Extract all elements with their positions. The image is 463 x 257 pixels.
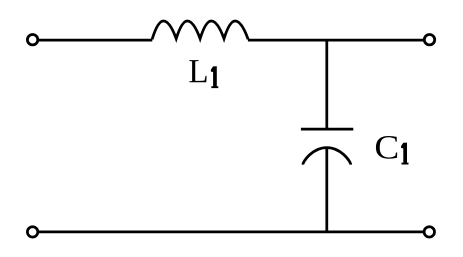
wire capacitor lower lead bbox=[325, 148, 328, 232]
wire top-left segment bbox=[38, 39, 153, 42]
capacitor C1 top plate bbox=[301, 128, 353, 131]
wire capacitor upper lead bbox=[325, 40, 328, 129]
capacitor C1 bottom plate (arc) bbox=[303, 148, 351, 165]
label L1 bbox=[189, 60, 218, 88]
terminal bottom-right bbox=[424, 227, 434, 237]
terminal bottom-left bbox=[27, 227, 37, 237]
wire top-right segment bbox=[248, 39, 424, 42]
terminal top-left bbox=[27, 35, 37, 45]
label C1 bbox=[376, 136, 409, 165]
terminal top-right bbox=[424, 35, 434, 45]
wire bottom bbox=[38, 231, 424, 234]
inductor L1 bbox=[152, 21, 248, 40]
